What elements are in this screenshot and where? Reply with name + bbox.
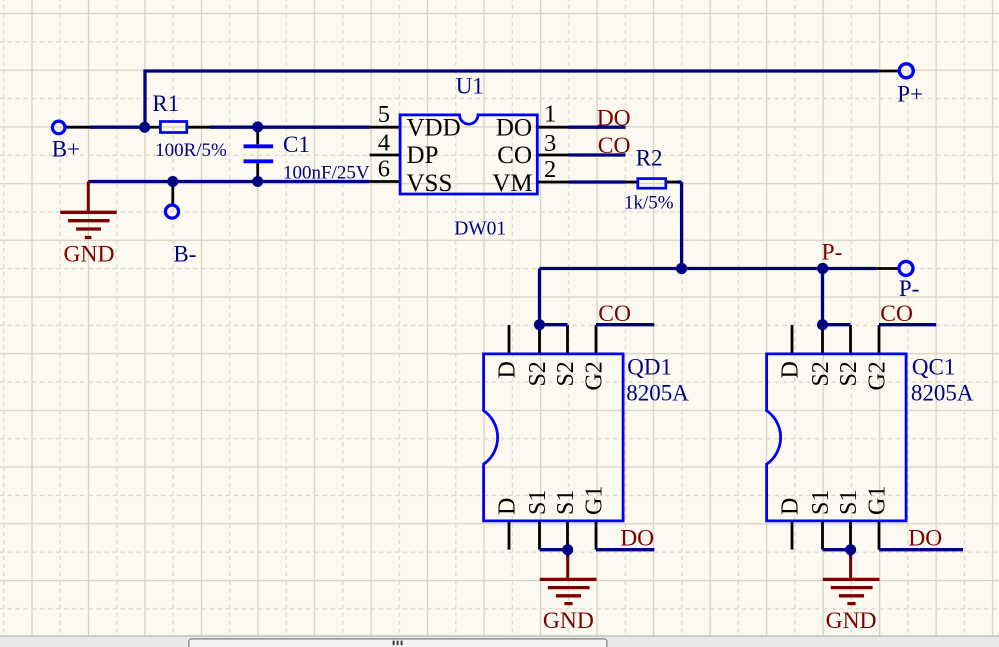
svg-text:GND: GND: [543, 608, 594, 634]
svg-text:QC1: QC1: [912, 355, 955, 380]
svg-text:VM: VM: [492, 170, 532, 197]
svg-text:G1: G1: [582, 486, 608, 515]
svg-text:U1: U1: [456, 74, 484, 99]
svg-text:S1: S1: [525, 490, 551, 515]
svg-text:G2: G2: [582, 361, 608, 390]
svg-text:VDD: VDD: [407, 114, 461, 141]
svg-text:B-: B-: [173, 241, 196, 266]
svg-text:GND: GND: [64, 242, 115, 268]
svg-text:S1: S1: [808, 490, 834, 515]
svg-text:DO: DO: [597, 106, 631, 132]
svg-text:DW01: DW01: [454, 218, 506, 239]
svg-text:CO: CO: [598, 133, 631, 159]
svg-text:DO: DO: [908, 526, 942, 552]
svg-text:S2: S2: [553, 361, 579, 386]
svg-text:P+: P+: [897, 82, 923, 107]
svg-text:S2: S2: [525, 361, 551, 386]
svg-text:S2: S2: [836, 361, 862, 386]
svg-text:G1: G1: [865, 486, 891, 515]
svg-text:5: 5: [378, 101, 390, 128]
svg-text:6: 6: [378, 155, 390, 182]
svg-text:P-: P-: [899, 276, 919, 301]
svg-text:GND: GND: [826, 608, 877, 634]
svg-text:100nF/25V: 100nF/25V: [283, 163, 370, 184]
svg-text:4: 4: [378, 129, 390, 156]
svg-text:R2: R2: [636, 146, 663, 171]
svg-text:2: 2: [544, 156, 556, 183]
svg-text:R1: R1: [152, 91, 179, 116]
svg-text:QD1: QD1: [627, 355, 672, 380]
svg-text:DO: DO: [620, 526, 654, 552]
svg-text:S2: S2: [808, 361, 834, 386]
svg-text:B+: B+: [52, 136, 80, 161]
svg-text:G2: G2: [865, 361, 891, 390]
svg-text:CO: CO: [497, 142, 532, 169]
svg-text:DP: DP: [407, 142, 439, 169]
svg-text:C1: C1: [283, 132, 310, 157]
svg-text:8205A: 8205A: [626, 381, 689, 406]
svg-text:CO: CO: [880, 301, 913, 327]
svg-text:D: D: [778, 361, 804, 378]
svg-text:100R/5%: 100R/5%: [155, 140, 227, 161]
svg-text:S1: S1: [553, 490, 579, 515]
svg-text:1: 1: [544, 101, 556, 128]
svg-text:1k/5%: 1k/5%: [624, 193, 674, 214]
svg-text:VSS: VSS: [407, 170, 453, 197]
svg-text:D: D: [778, 498, 804, 515]
svg-text:D: D: [495, 498, 521, 515]
svg-text:DO: DO: [496, 114, 532, 141]
svg-text:CO: CO: [598, 301, 631, 327]
svg-text:3: 3: [544, 130, 556, 157]
svg-text:8205A: 8205A: [911, 381, 974, 406]
svg-text:P-: P-: [822, 239, 843, 265]
svg-text:S1: S1: [836, 490, 862, 515]
svg-text:D: D: [495, 361, 521, 378]
